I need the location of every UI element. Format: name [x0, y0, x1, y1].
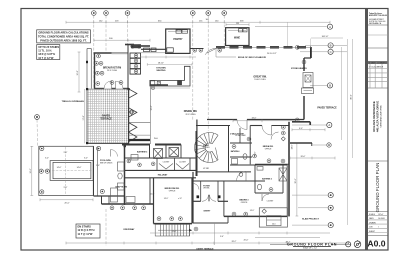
bedrm3 label — [239, 200, 249, 205]
pool bath fixtures — [118, 162, 125, 190]
dim line master — [292, 128, 325, 131]
accordion doors east of terrace — [129, 89, 137, 145]
svg-text:ENTRY: ENTRY — [204, 211, 211, 213]
master patio tags — [281, 118, 299, 141]
svg-text:26'-0": 26'-0" — [301, 156, 306, 158]
accordion door diamond tag — [129, 110, 134, 115]
svg-text:GROUND FLOOR AREA CALCULATIONS: GROUND FLOOR AREA CALCULATIONS — [38, 30, 88, 34]
svg-text:18 R @ 6.67"H: 18 R @ 6.67"H — [38, 53, 55, 56]
hall edge lines east of doors — [129, 85, 151, 144]
svg-text:14'-9": 14'-9" — [250, 210, 255, 212]
pool west dim — [30, 146, 33, 195]
terrace posts — [86, 88, 130, 147]
svg-text:UP 18R: UP 18R — [203, 168, 210, 170]
media rm door arc — [262, 126, 272, 136]
bedrm3 door at top — [237, 172, 247, 182]
breakfast rm label — [103, 67, 121, 73]
pool centre lines — [41, 147, 93, 195]
svg-text:SHEET: SHEET — [369, 231, 376, 233]
grid bubble B — [305, 43, 347, 48]
svg-text:MEDIA RM.: MEDIA RM. — [263, 145, 274, 148]
heavy wall north of bath3 w/ hatch — [129, 139, 150, 141]
svg-text:TRELLIS OVERHANG: TRELLIS OVERHANG — [62, 100, 85, 103]
trellis wall lines west — [87, 49, 91, 89]
kitchen north wall — [141, 48, 166, 53]
grid bubble 1 — [92, 11, 97, 16]
grid bubble 4 — [191, 11, 196, 16]
svg-text:A: A — [328, 123, 330, 127]
grid bubble B2 — [310, 83, 333, 88]
bedrm3 south tags — [232, 212, 248, 216]
detail circle 1 — [346, 241, 351, 247]
svg-text:10 T @ 12"W: 10 T @ 12"W — [38, 57, 54, 60]
svg-text:x 12': x 12' — [178, 198, 182, 200]
svg-text:14'-0": 14'-0" — [57, 167, 62, 169]
media rm label — [263, 145, 274, 151]
svg-text:SLAB PROJECT: SLAB PROJECT — [302, 218, 320, 221]
dim line e of media — [290, 157, 335, 160]
grid bubble A2 — [292, 122, 332, 127]
pool corner bubbles — [39, 146, 104, 194]
svg-text:101'-6": 101'-6" — [322, 36, 329, 38]
entry steps comb — [155, 224, 192, 236]
grid bubble 5 — [206, 11, 211, 16]
svg-text:OFFICE: OFFICE — [265, 149, 272, 151]
svg-text:17'-8": 17'-8" — [83, 115, 85, 120]
foyer label — [203, 185, 210, 189]
pool south dim — [40, 198, 93, 201]
svg-text:11 TL. 10 H.: 11 TL. 10 H. — [38, 50, 52, 53]
bath3 fixtures — [131, 148, 179, 161]
svg-text:OFFICE: OFFICE — [241, 202, 248, 204]
svg-text:DRIVEWAY: DRIVEWAY — [124, 228, 136, 231]
north dashes of lower wing wall — [122, 144, 181, 146]
terrace double door at great rm nw — [190, 48, 222, 54]
north arrow compass — [354, 240, 361, 248]
svg-text:EDGE OF 2ND FLR ABOVE: EDGE OF 2ND FLR ABOVE — [238, 56, 267, 59]
bedroom south tags — [157, 217, 182, 221]
dim line 100 (west wing) — [94, 39, 150, 42]
title block — [365, 9, 388, 250]
dn stairs note box — [76, 224, 100, 238]
right dim for bedrm3 wing — [296, 143, 299, 216]
svg-text:10-2008: 10-2008 — [378, 218, 385, 220]
right vertical reference lines — [311, 38, 353, 225]
svg-text:1: 1 — [369, 66, 370, 68]
svg-text:ENTRY TERRACE: ENTRY TERRACE — [197, 247, 215, 250]
svg-text:DN STAIRS: DN STAIRS — [78, 226, 92, 229]
svg-text:CLOSET: CLOSET — [179, 161, 186, 163]
svg-text:9'-4": 9'-4" — [220, 236, 224, 238]
pool deck — [39, 146, 94, 195]
svg-text:14'-0": 14'-0" — [77, 167, 82, 169]
bathroom 2 — [252, 165, 287, 193]
hall door west of foyer — [193, 184, 199, 190]
svg-text:14'-9": 14'-9" — [164, 198, 169, 200]
svg-text:POOL/SPA: POOL/SPA — [100, 159, 111, 162]
svg-text:2F OPEN: 2F OPEN — [203, 147, 211, 149]
top dimension line — [66, 21, 330, 24]
svg-text:1/8"=1': 1/8"=1' — [378, 214, 384, 216]
svg-text:OFFICE: OFFICE — [169, 191, 176, 193]
breakfast window tags — [95, 54, 123, 85]
svg-text:PAVED OUTDOOR AREA 1808 SQ. F: PAVED OUTDOOR AREA 1808 SQ. FT. — [40, 38, 87, 42]
svg-text:GREAT RM.: GREAT RM. — [253, 76, 267, 79]
svg-text:BREAKFAST RM: BREAKFAST RM — [103, 67, 121, 70]
svg-text:LOBBY: LOBBY — [203, 145, 210, 147]
svg-text:2F 8' CLNG: 2F 8' CLNG — [107, 70, 117, 72]
svg-text:B: B — [330, 44, 332, 48]
svg-text:BATHRM 4: BATHRM 4 — [231, 150, 240, 153]
svg-text:DATE: DATE — [371, 61, 377, 64]
svg-text:28'-2": 28'-2" — [232, 241, 237, 243]
dining rm label — [184, 110, 198, 116]
svg-text:DINING RM.: DINING RM. — [184, 110, 198, 113]
svg-text:SEATING: SEATING — [156, 69, 165, 72]
great rm label — [253, 76, 267, 82]
2nd floor edge dashed heavy wall — [216, 47, 311, 58]
lobby label — [203, 145, 211, 149]
pool bath door — [111, 150, 118, 157]
svg-text:ISSUE: ISSUE — [378, 66, 384, 68]
svg-text:3'-0": 3'-0" — [45, 158, 49, 160]
svg-text:11'-6": 11'-6" — [172, 231, 177, 233]
svg-text:STONE HEARTH: STONE HEARTH — [291, 67, 307, 70]
right lower bubbles D E F — [292, 193, 333, 228]
svg-text:ARCHITECT 00-000-00: ARCHITECT 00-000-00 — [369, 14, 387, 17]
svg-text:COMMENT: COMMENT — [377, 62, 388, 64]
svg-text:A: A — [329, 25, 331, 29]
grid bubble A with leader — [255, 24, 333, 29]
grid bubble E (left) — [35, 115, 40, 120]
svg-text:CRAFTS RM: CRAFTS RM — [115, 186, 127, 189]
se terrace — [259, 208, 287, 227]
svg-text:16'-0": 16'-0" — [151, 105, 153, 110]
front double doors — [197, 195, 221, 202]
svg-text:12x16' CLNG: 12x16' CLNG — [254, 79, 266, 81]
PLAN: grid bubbles top row — [92, 11, 227, 16]
svg-text:26'-10 1/2": 26'-10 1/2" — [267, 53, 277, 55]
svg-text:SCALE: SCALE — [369, 213, 376, 216]
svg-text:BATHRM 3: BATHRM 3 — [137, 151, 148, 154]
grid bubble 2 — [104, 11, 109, 16]
crafts rm — [102, 178, 154, 204]
svg-text:24.0: 24.0 — [272, 223, 276, 225]
svg-text:SANTA ANA CALIFORNIA: SANTA ANA CALIFORNIA — [379, 105, 382, 128]
window tag (329,145) — [313, 143, 331, 147]
lobby walls — [196, 120, 251, 177]
svg-text:DRAWN: DRAWN — [369, 221, 376, 224]
stairs note box — [37, 45, 60, 60]
svg-text:BATHRM 2: BATHRM 2 — [262, 178, 272, 181]
breakfast doors arcs — [104, 81, 123, 89]
pantry — [166, 29, 190, 53]
grid bubble 3 — [125, 11, 130, 16]
svg-text:9'-0": 9'-0" — [64, 187, 68, 189]
svg-text:SCALE 1/8" = 1'-0": SCALE 1/8" = 1'-0" — [303, 247, 318, 250]
svg-text:SEE 2F DWGS: SEE 2F DWGS — [100, 162, 113, 164]
grid bubble C — [300, 49, 347, 54]
mud locker tags — [131, 45, 141, 74]
bath2 shower — [257, 167, 287, 190]
mud lockers column — [125, 44, 150, 74]
svg-text:#: # — [378, 227, 379, 229]
svg-text:2'-0": 2'-0" — [96, 165, 100, 167]
svg-text:9'-0": 9'-0" — [64, 152, 68, 154]
svg-text:20'-0": 20'-0" — [64, 203, 69, 205]
svg-text:28'-10": 28'-10" — [158, 63, 164, 65]
great rm south wall + door — [207, 119, 304, 121]
pool dim texts — [45, 152, 100, 189]
svg-text:8'-0": 8'-0" — [299, 128, 303, 130]
bath row walls — [125, 131, 197, 178]
svg-text:10'-8": 10'-8" — [77, 70, 79, 75]
breakfast room walls — [94, 45, 130, 89]
svg-text:B: B — [329, 84, 331, 88]
stone hearth fireplace — [302, 73, 314, 94]
edge of 2nd flr above note — [216, 49, 236, 57]
svg-text:GROUND FLOOR PLAN: GROUND FLOOR PLAN — [375, 163, 380, 213]
kitchen south counters — [151, 86, 154, 89]
svg-text:A0.0: A0.0 — [367, 239, 385, 249]
svg-text:GROUND FLOOR PLAN: GROUND FLOOR PLAN — [287, 242, 337, 246]
svg-text:2F 8' CLNG: 2F 8' CLNG — [186, 114, 196, 116]
kitchen label — [156, 67, 166, 72]
paved terrace label (hatch) — [100, 115, 112, 121]
crafts south wall tags — [110, 206, 145, 210]
svg-text:2 WALK-IN BATH: 2 WALK-IN BATH — [230, 133, 244, 136]
svg-text:TOTAL CONDITIONED AREA 4802 S: TOTAL CONDITIONED AREA 4802 SQ. FT. — [38, 34, 89, 38]
titleblock revision table header — [369, 61, 388, 68]
titleblock project name (rotated) — [372, 101, 383, 132]
great rm east wall — [304, 58, 311, 120]
titleblock firm address text — [369, 12, 387, 25]
svg-text:VESTIB.: VESTIB. — [203, 188, 210, 190]
svg-text:CLOSET: CLOSET — [163, 161, 170, 163]
svg-text:C: C — [330, 50, 332, 54]
svg-text:34'-6": 34'-6" — [252, 118, 257, 120]
svg-text:34'-6": 34'-6" — [292, 144, 294, 149]
svg-text:11 T @ 11"W: 11 T @ 11"W — [78, 233, 94, 236]
wine top dim — [226, 23, 249, 26]
svg-text:HALLWAY: HALLWAY — [158, 173, 168, 176]
svg-text:DATE: DATE — [369, 217, 374, 220]
svg-text:TERRACE: TERRACE — [100, 117, 112, 120]
svg-text:16'-0": 16'-0" — [30, 168, 32, 173]
svg-text:30'-6": 30'-6" — [295, 178, 297, 183]
svg-text:12 R @ 6.75"H: 12 R @ 6.75"H — [78, 229, 95, 232]
svg-text:PANTRY: PANTRY — [173, 38, 183, 41]
svg-text:W.H.: W.H. — [154, 138, 158, 140]
svg-text:20'-0": 20'-0" — [244, 239, 249, 241]
grid bubble 6 — [222, 11, 227, 16]
master door arcs — [271, 132, 279, 140]
closet row — [157, 158, 190, 170]
kitchen dim line — [140, 56, 196, 59]
master jut east walls — [290, 122, 312, 146]
titleblock info rows — [369, 213, 385, 233]
svg-text:WINE: WINE — [234, 38, 240, 40]
area calculations note box — [37, 30, 91, 43]
svg-text:SANTA ANA CA.: SANTA ANA CA. — [369, 22, 382, 25]
svg-text:PAVED TERRACE: PAVED TERRACE — [317, 106, 337, 109]
pool/spa label — [100, 159, 113, 165]
grid centre lines (dashed) — [37, 15, 224, 246]
svg-text:UP TO 2F STAIRS: UP TO 2F STAIRS — [38, 46, 59, 49]
svg-text:WD WD: WD WD — [176, 30, 183, 32]
pool basin — [50, 161, 93, 181]
kitchen island — [150, 66, 190, 88]
svg-text:CLOSET: CLOSET — [267, 201, 274, 203]
svg-text:441 ALTA VISTA DRIVE: 441 ALTA VISTA DRIVE — [375, 101, 379, 132]
drawing title — [270, 242, 346, 249]
svg-text:3'-0": 3'-0" — [84, 158, 88, 160]
svg-text:36'-6": 36'-6" — [351, 94, 353, 100]
